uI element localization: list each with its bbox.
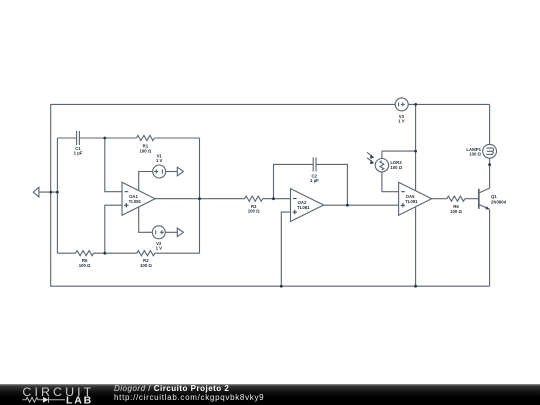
svg-text:1 µF: 1 µF (310, 178, 319, 183)
svg-text:2N3904: 2N3904 (491, 200, 507, 205)
svg-text:TL081: TL081 (297, 205, 310, 210)
svg-text:1 µF: 1 µF (74, 151, 83, 156)
svg-text:1 V: 1 V (156, 158, 163, 163)
svg-text:100 Ω: 100 Ω (248, 209, 260, 214)
svg-text:100 Ω: 100 Ω (79, 263, 91, 268)
svg-text:100 Ω: 100 Ω (139, 148, 151, 153)
svg-text:100 Ω: 100 Ω (469, 152, 481, 157)
svg-text:Q1: Q1 (491, 194, 497, 199)
svg-text:TL081: TL081 (405, 199, 418, 204)
svg-text:1 V: 1 V (398, 118, 405, 123)
svg-text:TL081: TL081 (129, 199, 142, 204)
svg-text:1 V: 1 V (156, 245, 163, 250)
svg-text:LAB: LAB (66, 394, 93, 405)
svg-text:100 Ω: 100 Ω (390, 165, 402, 170)
svg-text:100 Ω: 100 Ω (450, 209, 462, 214)
svg-text:100 Ω: 100 Ω (140, 263, 152, 268)
